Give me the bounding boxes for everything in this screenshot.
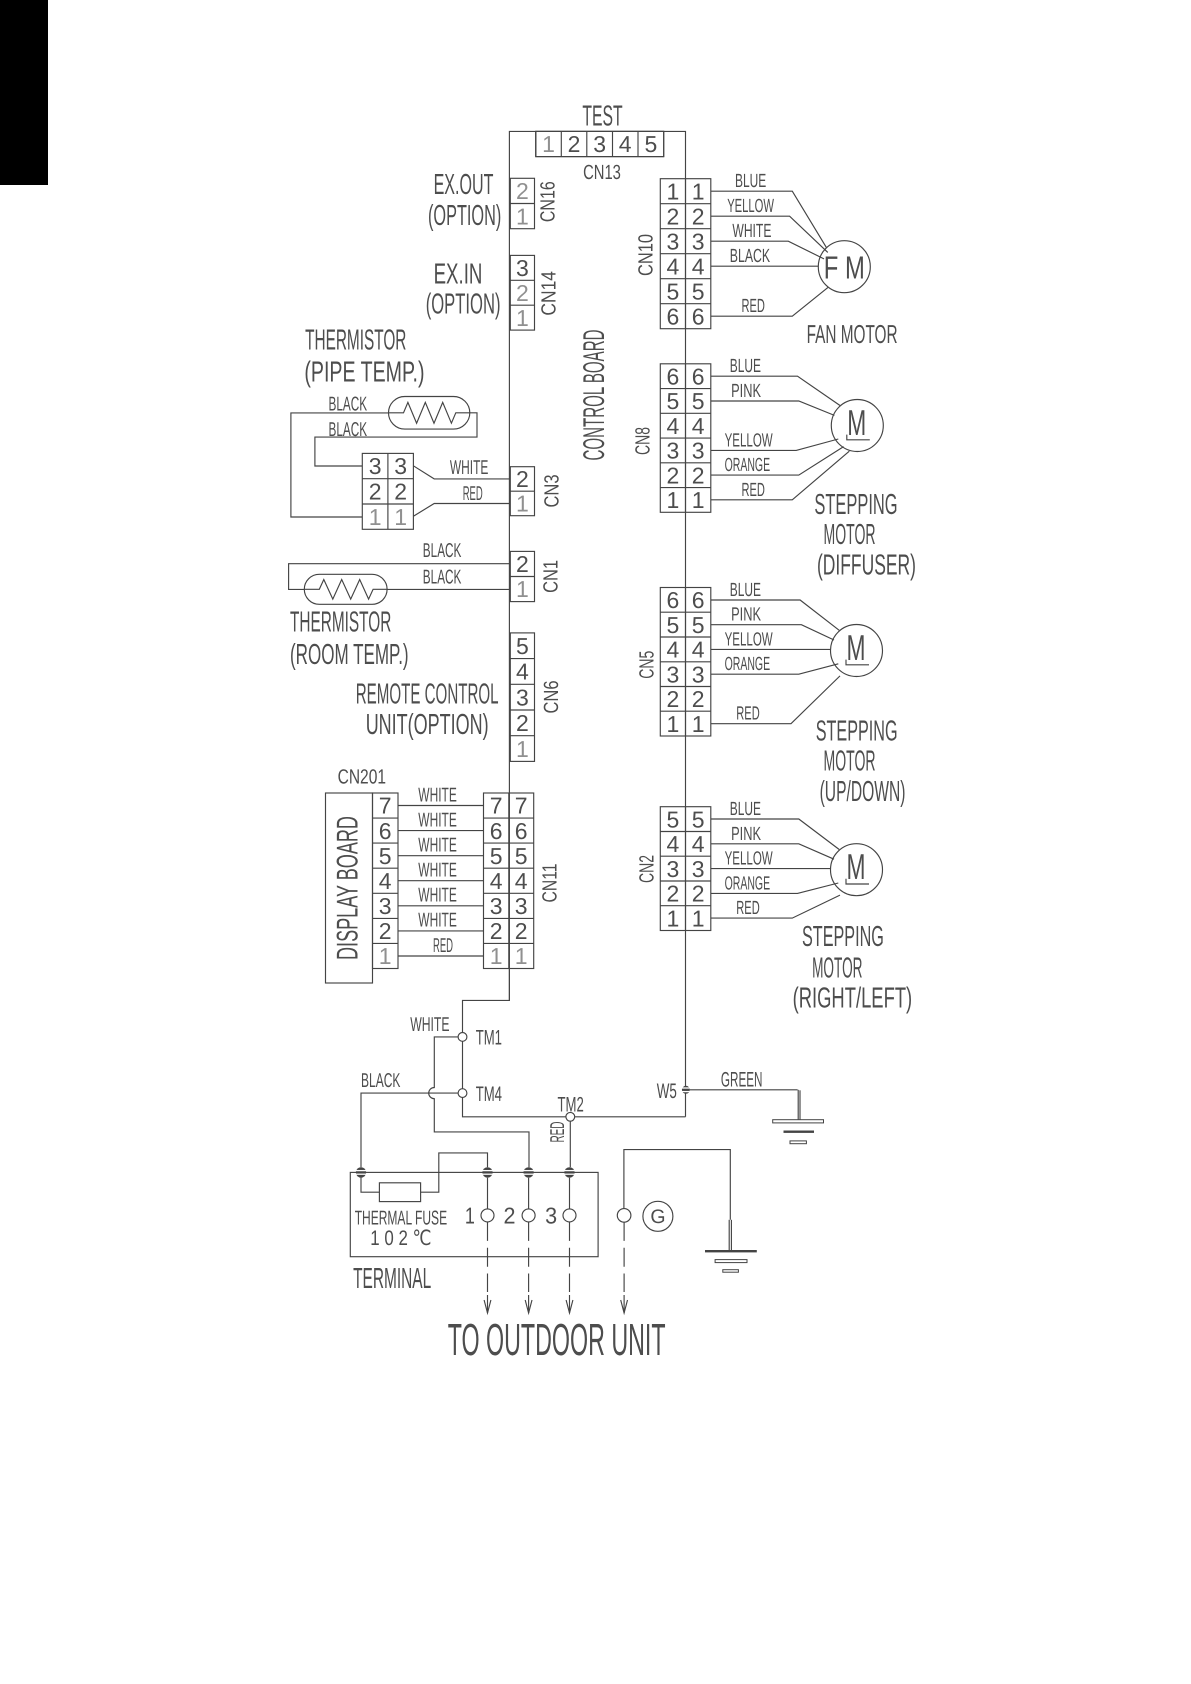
terminal 3 bbox=[563, 1178, 576, 1222]
svg-text:4: 4 bbox=[692, 831, 705, 857]
svg-text:W5: W5 bbox=[657, 1080, 677, 1103]
label CONTROL BOARD bbox=[578, 330, 611, 461]
svg-text:CN5: CN5 bbox=[635, 651, 658, 679]
svg-text:3: 3 bbox=[379, 893, 392, 919]
svg-text:TM1: TM1 bbox=[476, 1027, 502, 1050]
svg-text:1: 1 bbox=[516, 576, 529, 602]
svg-text:4: 4 bbox=[667, 413, 680, 439]
wire CN10 pin1 BLUE to fan motor bbox=[711, 191, 827, 248]
svg-text:BLUE: BLUE bbox=[730, 580, 761, 601]
svg-text:4: 4 bbox=[619, 131, 632, 157]
wire CN2 pin2 ORANGE to stepping motor right/left bbox=[711, 883, 839, 893]
wire CN8 pin5 PINK to stepping motor diffuser bbox=[711, 401, 835, 415]
display board box bbox=[326, 793, 373, 983]
svg-text:2: 2 bbox=[692, 881, 705, 907]
svg-text:STEPPING: STEPPING bbox=[802, 921, 884, 953]
svg-text:1: 1 bbox=[379, 943, 392, 969]
svg-text:YELLOW: YELLOW bbox=[725, 629, 773, 650]
svg-text:6: 6 bbox=[692, 303, 705, 329]
svg-text:M: M bbox=[847, 846, 866, 887]
svg-text:3: 3 bbox=[516, 684, 529, 710]
svg-text:3: 3 bbox=[667, 228, 680, 254]
svg-text:(RIGHT/LEFT): (RIGHT/LEFT) bbox=[793, 983, 913, 1015]
svg-text:WHITE: WHITE bbox=[418, 835, 457, 857]
svg-text:WHITE: WHITE bbox=[418, 910, 457, 932]
svg-text:1: 1 bbox=[692, 905, 705, 931]
wire TM2 down to terminal 3 bbox=[569, 1121, 571, 1167]
svg-text:THERMISTOR: THERMISTOR bbox=[305, 324, 406, 356]
svg-text:PINK: PINK bbox=[731, 605, 761, 626]
svg-text:RED: RED bbox=[736, 898, 759, 919]
wire CN8 pin2 ORANGE to stepping motor diffuser bbox=[711, 447, 844, 476]
svg-text:4: 4 bbox=[516, 659, 529, 685]
svg-text:RED: RED bbox=[463, 483, 483, 505]
svg-text:2: 2 bbox=[369, 479, 382, 505]
svg-text:CN2: CN2 bbox=[635, 855, 658, 883]
svg-text:3: 3 bbox=[667, 856, 680, 882]
wire CN8 pin6 BLUE to stepping motor diffuser bbox=[711, 376, 840, 405]
wire CN2 pin1 RED to stepping motor right/left bbox=[711, 895, 840, 918]
svg-text:2: 2 bbox=[692, 203, 705, 229]
svg-text:ORANGE: ORANGE bbox=[725, 455, 771, 476]
svg-text:3: 3 bbox=[667, 438, 680, 464]
svg-text:3: 3 bbox=[515, 893, 528, 919]
svg-text:YELLOW: YELLOW bbox=[727, 196, 774, 217]
svg-text:2: 2 bbox=[516, 178, 529, 204]
svg-text:EX.OUT: EX.OUT bbox=[434, 169, 494, 201]
page corner banner (black) bbox=[0, 0, 48, 185]
connector CN2 bbox=[660, 806, 711, 931]
terminal block box bbox=[350, 1172, 598, 1256]
svg-text:STEPPING: STEPPING bbox=[814, 489, 897, 521]
svg-text:EX.IN: EX.IN bbox=[434, 258, 483, 290]
svg-text:CN6: CN6 bbox=[540, 681, 563, 714]
svg-text:6: 6 bbox=[490, 818, 503, 844]
svg-text:STEPPING: STEPPING bbox=[816, 715, 898, 747]
svg-text:5: 5 bbox=[692, 612, 705, 638]
wire TM1 to TM4 bbox=[462, 1041, 464, 1088]
svg-text:RED: RED bbox=[736, 704, 759, 725]
svg-text:5: 5 bbox=[667, 388, 680, 414]
svg-text:M: M bbox=[847, 402, 866, 443]
svg-text:BLUE: BLUE bbox=[730, 356, 761, 377]
terminal G (earth pin) bbox=[617, 1209, 631, 1223]
svg-text:CONTROL BOARD: CONTROL BOARD bbox=[578, 330, 611, 461]
wire CN10 pin4 BLACK to fan motor bbox=[711, 265, 819, 267]
svg-text:UNIT(OPTION): UNIT(OPTION) bbox=[366, 709, 489, 741]
svg-text:1: 1 bbox=[490, 943, 503, 969]
svg-text:5: 5 bbox=[667, 278, 680, 304]
svg-text:1: 1 bbox=[465, 1203, 475, 1229]
wire CN2 pin5 BLUE to stepping motor right/left bbox=[711, 819, 839, 850]
svg-text:PINK: PINK bbox=[731, 824, 761, 845]
svg-text:2: 2 bbox=[516, 551, 529, 577]
svg-text:2: 2 bbox=[379, 918, 392, 944]
svg-text:RED: RED bbox=[742, 480, 765, 501]
svg-text:TERMINAL: TERMINAL bbox=[353, 1263, 431, 1295]
svg-text:1: 1 bbox=[692, 178, 705, 204]
wire CN10 pin2 YELLOW to fan motor bbox=[711, 216, 828, 252]
wire TM2 to board edge corner bbox=[575, 1116, 686, 1118]
svg-text:4: 4 bbox=[667, 253, 680, 279]
svg-text:1: 1 bbox=[667, 711, 680, 737]
svg-text:WHITE: WHITE bbox=[410, 1014, 449, 1036]
svg-text:CN14: CN14 bbox=[537, 271, 560, 316]
svg-text:3: 3 bbox=[593, 131, 606, 157]
svg-text:5: 5 bbox=[516, 633, 529, 659]
svg-text:3: 3 bbox=[667, 661, 680, 687]
junction dot terminal 3 bbox=[564, 1167, 574, 1177]
svg-text:4: 4 bbox=[490, 868, 503, 894]
wire CN10 pin6 RED to fan motor bbox=[711, 287, 829, 316]
label DISPLAY BOARD bbox=[332, 816, 365, 960]
svg-text:CN201: CN201 bbox=[338, 765, 386, 788]
svg-text:6: 6 bbox=[379, 818, 392, 844]
svg-text:TM4: TM4 bbox=[476, 1083, 503, 1106]
stepping motor (right/left) symbol bbox=[831, 844, 883, 896]
svg-text:BLUE: BLUE bbox=[730, 799, 761, 820]
svg-text:4: 4 bbox=[379, 868, 392, 894]
wire pipe thermistor black 1 bbox=[291, 413, 389, 517]
svg-text:1: 1 bbox=[516, 305, 529, 331]
svg-text:1: 1 bbox=[369, 504, 382, 530]
svg-text:1: 1 bbox=[394, 504, 407, 530]
G indicator circle bbox=[643, 1201, 673, 1231]
junction dot (black wire / fuse) bbox=[356, 1167, 366, 1177]
connector CN201 pins bbox=[373, 793, 399, 970]
svg-text:CN10: CN10 bbox=[634, 234, 657, 276]
svg-text:CN13: CN13 bbox=[583, 161, 621, 184]
svg-text:CN1: CN1 bbox=[539, 560, 562, 593]
wire CN5 pin6 BLUE to stepping motor up/down bbox=[711, 600, 839, 630]
svg-text:GREEN: GREEN bbox=[721, 1068, 763, 1091]
svg-text:(ROOM TEMP.): (ROOM TEMP.) bbox=[290, 639, 409, 671]
connector CN6 bbox=[510, 633, 534, 762]
svg-text:5: 5 bbox=[692, 806, 705, 832]
svg-text:BLACK: BLACK bbox=[361, 1070, 401, 1092]
wire CN8 pin1 RED to stepping motor diffuser bbox=[711, 451, 850, 500]
svg-text:4: 4 bbox=[667, 831, 680, 857]
svg-text:5: 5 bbox=[645, 131, 658, 157]
svg-text:WHITE: WHITE bbox=[732, 221, 771, 242]
svg-text:BLACK: BLACK bbox=[329, 393, 368, 415]
svg-text:MOTOR: MOTOR bbox=[824, 519, 876, 551]
svg-text:THERMAL FUSE: THERMAL FUSE bbox=[355, 1207, 447, 1229]
wire CN2 pin4 PINK to stepping motor right/left bbox=[711, 844, 834, 859]
svg-text:5: 5 bbox=[692, 278, 705, 304]
wire room thermistor black 2 bbox=[387, 588, 510, 590]
thermistor room temp. sensor body bbox=[304, 574, 387, 604]
svg-text:M: M bbox=[847, 627, 866, 668]
svg-text:CN3: CN3 bbox=[540, 475, 563, 508]
connector CN14 bbox=[510, 255, 534, 331]
svg-text:5: 5 bbox=[379, 843, 392, 869]
terminal 1 bbox=[481, 1178, 494, 1222]
dashed wire terminal 2 to outdoor unit bbox=[525, 1222, 532, 1313]
svg-text:7: 7 bbox=[379, 793, 392, 819]
svg-text:2: 2 bbox=[394, 479, 407, 505]
control board outline bbox=[509, 131, 685, 1116]
svg-text:BLACK: BLACK bbox=[730, 246, 771, 267]
stepping motor (up/down) symbol bbox=[831, 625, 883, 677]
svg-text:6: 6 bbox=[515, 818, 528, 844]
wire W5 green to earth bbox=[690, 1090, 800, 1120]
svg-text:WHITE: WHITE bbox=[418, 860, 457, 882]
svg-text:2: 2 bbox=[667, 203, 680, 229]
svg-text:6: 6 bbox=[692, 587, 705, 613]
svg-text:5: 5 bbox=[692, 388, 705, 414]
ground symbol (chassis earth 2) bbox=[705, 1250, 757, 1272]
svg-text:7: 7 bbox=[490, 793, 503, 819]
wire WHITE to CN3 pin2 bbox=[413, 466, 510, 479]
junction dot terminal 1 bbox=[482, 1167, 492, 1177]
svg-text:WHITE: WHITE bbox=[450, 457, 489, 479]
svg-text:REMOTE CONTROL: REMOTE CONTROL bbox=[356, 678, 499, 710]
svg-text:3: 3 bbox=[692, 228, 705, 254]
svg-text:1: 1 bbox=[516, 491, 529, 517]
svg-text:1: 1 bbox=[667, 487, 680, 513]
svg-text:4: 4 bbox=[692, 413, 705, 439]
svg-text:(OPTION): (OPTION) bbox=[428, 200, 501, 232]
svg-text:RED: RED bbox=[433, 935, 453, 957]
svg-text:3: 3 bbox=[692, 661, 705, 687]
svg-text:(OPTION): (OPTION) bbox=[426, 288, 501, 320]
terminal 2 bbox=[522, 1178, 535, 1222]
svg-text:5: 5 bbox=[667, 806, 680, 832]
svg-text:WHITE: WHITE bbox=[418, 784, 457, 806]
svg-text:3: 3 bbox=[545, 1203, 557, 1229]
wire CN201 pin3 to CN11 pin3 (WHITE) bbox=[398, 905, 484, 907]
wire pipe thermistor black 2 bbox=[315, 413, 477, 466]
wire CN201 pin1 to CN11 pin1 (RED) bbox=[398, 955, 484, 957]
svg-text:(PIPE TEMP.): (PIPE TEMP.) bbox=[304, 356, 424, 388]
svg-text:6: 6 bbox=[692, 363, 705, 389]
wire CN8 pin3 YELLOW to stepping motor diffuser bbox=[711, 439, 839, 450]
wire CN201 pin6 to CN11 pin6 (WHITE) bbox=[398, 830, 484, 832]
connector CN1 bbox=[510, 551, 534, 602]
svg-text:1: 1 bbox=[515, 943, 528, 969]
connector CN10 bbox=[660, 178, 711, 329]
node TM2 bbox=[566, 1112, 575, 1121]
svg-text:2: 2 bbox=[515, 918, 528, 944]
connector CN3 bbox=[510, 466, 534, 517]
connector CN5 bbox=[660, 587, 711, 737]
svg-text:1: 1 bbox=[542, 131, 555, 157]
svg-text:(UP/DOWN): (UP/DOWN) bbox=[820, 776, 906, 808]
svg-text:3: 3 bbox=[394, 453, 407, 479]
svg-text:2: 2 bbox=[516, 280, 529, 306]
svg-text:3: 3 bbox=[490, 893, 503, 919]
svg-text:3: 3 bbox=[369, 453, 382, 479]
svg-text:1: 1 bbox=[516, 203, 529, 229]
connector CN11 bbox=[484, 793, 534, 970]
svg-text:ORANGE: ORANGE bbox=[725, 654, 771, 675]
wire into thermal fuse bbox=[361, 1177, 379, 1192]
svg-text:2: 2 bbox=[667, 462, 680, 488]
node TM1 bbox=[458, 1033, 467, 1042]
svg-text:5: 5 bbox=[490, 843, 503, 869]
wire CN5 pin3 ORANGE to stepping motor up/down bbox=[711, 664, 839, 674]
svg-text:3: 3 bbox=[692, 856, 705, 882]
connector CN8 bbox=[660, 363, 711, 513]
svg-text:1: 1 bbox=[692, 487, 705, 513]
svg-text:CN8: CN8 bbox=[631, 427, 654, 455]
svg-text:1 0 2 ℃: 1 0 2 ℃ bbox=[370, 1227, 431, 1250]
svg-text:FAN MOTOR: FAN MOTOR bbox=[807, 319, 898, 349]
svg-text:2: 2 bbox=[490, 918, 503, 944]
svg-text:BLACK: BLACK bbox=[423, 567, 462, 589]
wire TM1 to terminal 2 (white) with hop bbox=[429, 1037, 529, 1167]
svg-text:3: 3 bbox=[692, 438, 705, 464]
svg-text:1: 1 bbox=[692, 711, 705, 737]
wire CN201 pin7 to CN11 pin7 (WHITE) bbox=[398, 805, 484, 807]
svg-text:F M: F M bbox=[824, 249, 865, 285]
wire CN201 pin2 to CN11 pin2 (WHITE) bbox=[398, 930, 484, 932]
svg-text:DISPLAY BOARD: DISPLAY BOARD bbox=[332, 816, 365, 960]
svg-text:2: 2 bbox=[692, 686, 705, 712]
svg-text:6: 6 bbox=[667, 587, 680, 613]
wire room thermistor black 1 bbox=[289, 564, 511, 590]
connector CN13 pins 1-5 bbox=[536, 131, 664, 157]
node TM4 bbox=[458, 1089, 467, 1098]
svg-text:3: 3 bbox=[516, 255, 529, 281]
svg-text:6: 6 bbox=[667, 363, 680, 389]
wire CN201 pin4 to CN11 pin4 (WHITE) bbox=[398, 880, 484, 882]
connector thermistor plug 3x2 bbox=[362, 453, 413, 530]
svg-text:RED: RED bbox=[547, 1122, 569, 1143]
dashed wire terminal G to outdoor unit bbox=[621, 1222, 628, 1313]
svg-text:G: G bbox=[650, 1206, 665, 1228]
thermistor pipe temp. sensor body bbox=[389, 397, 470, 430]
svg-text:6: 6 bbox=[667, 303, 680, 329]
wire CN5 pin5 PINK to stepping motor up/down bbox=[711, 625, 834, 640]
wire CN5 pin4 YELLOW to stepping motor up/down bbox=[711, 648, 831, 650]
svg-text:PINK: PINK bbox=[731, 381, 761, 402]
svg-text:2: 2 bbox=[667, 881, 680, 907]
dashed wire terminal 1 to outdoor unit bbox=[484, 1222, 491, 1313]
wire CN5 pin1 RED to stepping motor up/down bbox=[711, 676, 840, 724]
stepping motor (diffuser) symbol bbox=[831, 400, 883, 452]
svg-text:(DIFFUSER): (DIFFUSER) bbox=[817, 550, 916, 582]
svg-text:2: 2 bbox=[667, 686, 680, 712]
svg-text:RED: RED bbox=[742, 296, 765, 317]
wire thermal fuse to terminal 1 bbox=[421, 1153, 488, 1192]
wire G terminal to earth 2 bbox=[624, 1150, 732, 1250]
svg-text:CN11: CN11 bbox=[538, 864, 561, 903]
node W5 (junction) bbox=[682, 1086, 690, 1094]
svg-text:YELLOW: YELLOW bbox=[725, 430, 773, 451]
svg-text:4: 4 bbox=[515, 868, 528, 894]
wire CN11/board to TM1 bbox=[463, 969, 510, 1033]
svg-text:BLUE: BLUE bbox=[735, 171, 766, 192]
svg-text:ORANGE: ORANGE bbox=[725, 873, 771, 894]
svg-text:5: 5 bbox=[515, 843, 528, 869]
wire TM4 down to TM2 line bbox=[463, 1098, 567, 1117]
svg-text:4: 4 bbox=[692, 637, 705, 663]
svg-text:YELLOW: YELLOW bbox=[725, 849, 773, 870]
wire BLACK from TM4 to terminal 1 side bbox=[361, 1093, 458, 1167]
thermal fuse F1 body bbox=[379, 1183, 420, 1202]
svg-text:7: 7 bbox=[515, 793, 528, 819]
svg-text:TO OUTDOOR UNIT: TO OUTDOOR UNIT bbox=[448, 1314, 666, 1365]
junction dot terminal 2 bbox=[523, 1167, 533, 1177]
svg-text:2: 2 bbox=[516, 710, 529, 736]
svg-text:WHITE: WHITE bbox=[418, 809, 457, 831]
svg-text:2: 2 bbox=[692, 462, 705, 488]
dashed wire terminal 3 to outdoor unit bbox=[566, 1222, 573, 1313]
svg-text:BLACK: BLACK bbox=[329, 419, 368, 441]
svg-text:TEST: TEST bbox=[582, 100, 622, 132]
svg-text:5: 5 bbox=[667, 612, 680, 638]
svg-text:1: 1 bbox=[667, 178, 680, 204]
svg-text:2: 2 bbox=[568, 131, 581, 157]
svg-text:4: 4 bbox=[692, 253, 705, 279]
svg-text:MOTOR: MOTOR bbox=[812, 952, 862, 984]
connector CN13 bbox=[536, 131, 664, 156]
svg-text:THERMISTOR: THERMISTOR bbox=[290, 606, 391, 638]
svg-text:1: 1 bbox=[667, 905, 680, 931]
ground symbol (green earth) bbox=[773, 1120, 824, 1144]
svg-text:MOTOR: MOTOR bbox=[824, 745, 876, 777]
wire CN10 pin3 WHITE to fan motor bbox=[711, 241, 824, 259]
svg-text:4: 4 bbox=[667, 637, 680, 663]
svg-text:BLACK: BLACK bbox=[423, 540, 462, 562]
svg-text:CN16: CN16 bbox=[536, 181, 559, 222]
fan motor FM bbox=[818, 241, 870, 293]
svg-text:2: 2 bbox=[516, 466, 529, 492]
svg-text:WHITE: WHITE bbox=[418, 885, 457, 907]
svg-text:2: 2 bbox=[504, 1203, 516, 1229]
connector CN16 bbox=[510, 178, 534, 229]
wire RED to CN3 pin1 bbox=[413, 504, 510, 517]
wire CN2 pin3 YELLOW to stepping motor right/left bbox=[711, 868, 831, 870]
svg-text:1: 1 bbox=[516, 736, 529, 762]
wire CN201 pin5 to CN11 pin5 (WHITE) bbox=[398, 855, 484, 857]
